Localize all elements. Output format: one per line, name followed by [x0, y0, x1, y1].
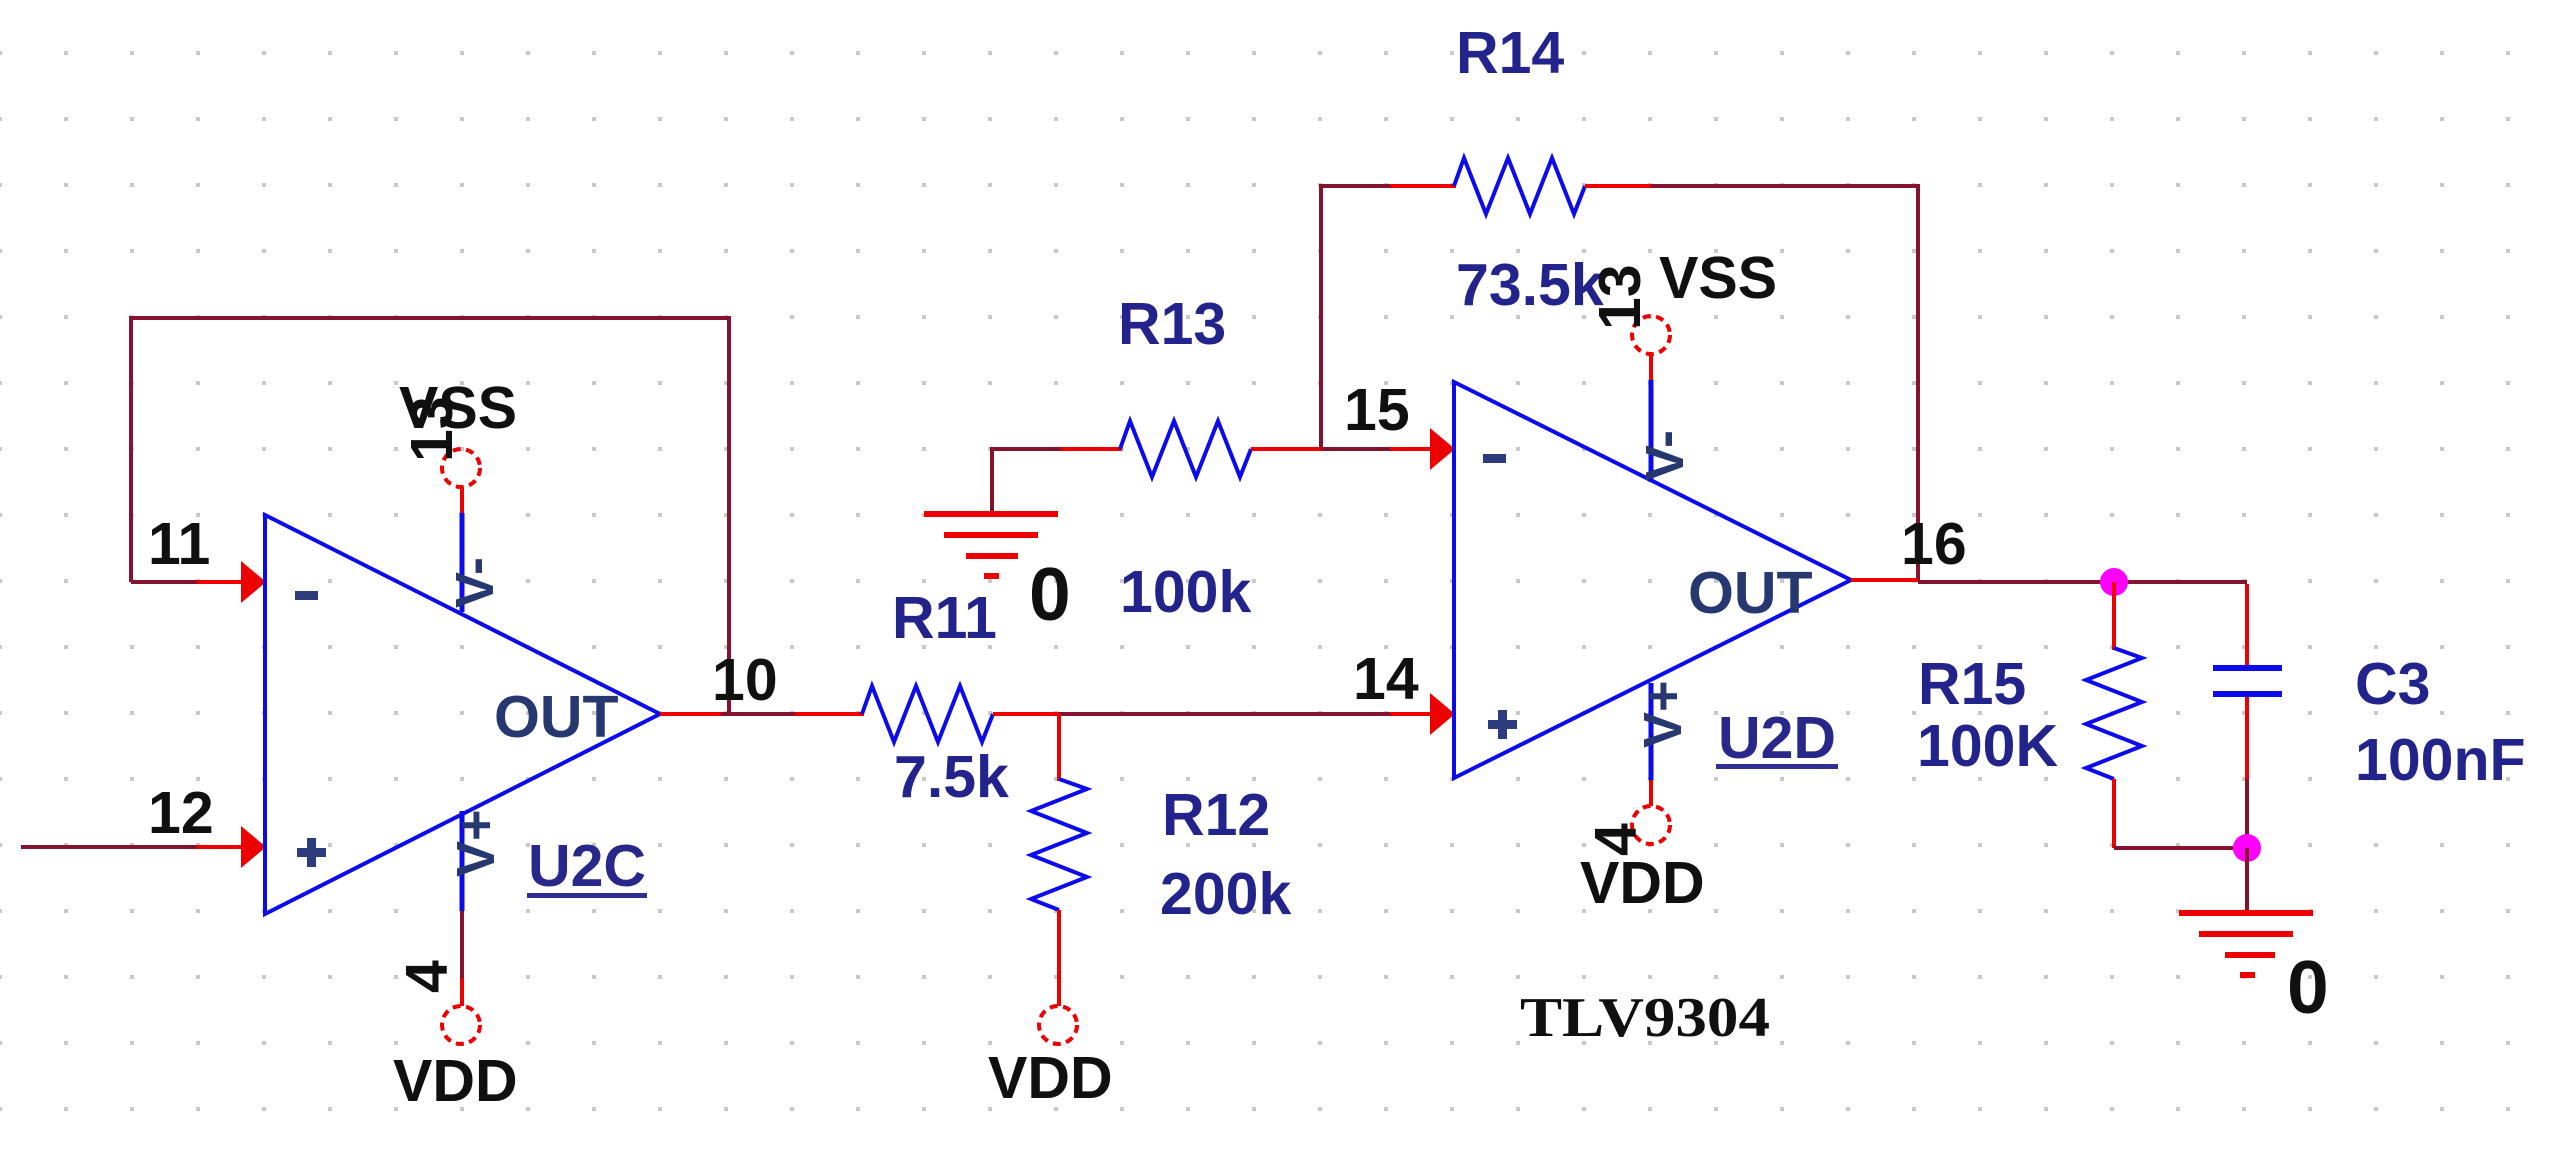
wire R11 to U2D pin 14 [1059, 712, 1390, 716]
svg-text:R12: R12 [1162, 782, 1270, 848]
wire feedback U2C output to inverting input [131, 318, 729, 712]
wire R15 bottom to ground node [2114, 846, 2247, 850]
svg-text:V-: V- [445, 557, 505, 608]
svg-text:V+: V+ [1633, 680, 1693, 748]
resistor R15 [2086, 582, 2142, 848]
op-amp U2C [265, 515, 660, 914]
svg-text:10: 10 [712, 647, 778, 713]
svg-text:VSS: VSS [1659, 245, 1777, 311]
wire U2D output to R15 and C3 [1918, 580, 2247, 584]
capacitor C3 [2213, 584, 2282, 848]
svg-text:V-: V- [1635, 430, 1695, 481]
svg-text:4: 4 [394, 960, 460, 993]
svg-text:73.5k: 73.5k [1456, 252, 1604, 318]
U2C VSS power symbol circle [442, 449, 480, 487]
svg-text:13: 13 [1587, 264, 1653, 330]
U2D VSS pin stub [1649, 354, 1653, 380]
svg-text:16: 16 [1901, 511, 1967, 577]
wire R14 feedback loop [1321, 186, 1390, 449]
U2C VDD power symbol circle [442, 1006, 480, 1044]
U2C reference label [527, 833, 647, 899]
svg-text:7.5k: 7.5k [894, 744, 1009, 810]
arrowhead pin 14 [1430, 693, 1455, 735]
wire pin 11 input [131, 580, 197, 584]
svg-text:13: 13 [399, 396, 465, 462]
resistor R12 [1031, 714, 1087, 1006]
U2D V+ power pin [1649, 683, 1654, 780]
resistor R14 [1390, 158, 1651, 214]
wire ground to R13 [992, 449, 1061, 514]
svg-text:TLV9304: TLV9304 [1520, 987, 1770, 1049]
svg-text:R15: R15 [1918, 651, 2026, 717]
pin stub 12 [197, 845, 248, 849]
resistor R11 [795, 686, 1059, 742]
R12 VDD power symbol circle [1039, 1006, 1077, 1044]
svg-text:U2C: U2C [528, 833, 646, 899]
svg-text:15: 15 [1344, 377, 1410, 443]
ground 0 at output [2179, 913, 2313, 975]
svg-text:0: 0 [1029, 552, 1071, 636]
svg-text:R14: R14 [1456, 20, 1564, 86]
arrowhead pin 15 [1430, 428, 1455, 470]
U2C V- power pin [460, 513, 465, 612]
arrowhead pin 12 [241, 826, 266, 868]
wire R14 to U2D output [1651, 186, 1918, 580]
op-amp U2D [1454, 382, 1851, 778]
svg-text:12: 12 [148, 780, 214, 846]
pin stub 15 [1390, 447, 1437, 451]
U2D V- power pin [1649, 380, 1654, 482]
svg-text:VDD: VDD [988, 1045, 1113, 1111]
svg-text:OUT: OUT [494, 684, 619, 750]
svg-text:100K: 100K [1917, 713, 2058, 779]
pin stub 14 [1390, 712, 1437, 716]
svg-text:OUT: OUT [1688, 560, 1813, 626]
svg-text:VDD: VDD [393, 1048, 518, 1114]
wire pin 12 input [21, 845, 197, 849]
U2D VDD pin stub [1649, 780, 1653, 806]
svg-text:100k: 100k [1120, 559, 1251, 625]
arrowhead pin 11 [241, 561, 266, 603]
svg-text:R13: R13 [1118, 291, 1226, 357]
wire U2C V+ to VDD [460, 911, 464, 978]
junction dot output node [2100, 568, 2128, 596]
svg-text:C3: C3 [2355, 651, 2430, 717]
U2C output pin stub [660, 712, 721, 716]
wire to ground [2245, 848, 2249, 913]
svg-text:U2D: U2D [1718, 705, 1836, 771]
wire U2C output to R11 [721, 712, 797, 716]
svg-text:VDD: VDD [1580, 850, 1705, 916]
svg-text:0: 0 [2287, 945, 2329, 1029]
ground 0 under R13 [924, 514, 1058, 576]
pin stub 11 [197, 580, 248, 584]
U2D reference label [1716, 705, 1838, 771]
U2D VDD power symbol circle [1632, 806, 1670, 844]
svg-text:R11: R11 [892, 585, 997, 651]
resistor R13 [1061, 421, 1322, 477]
U2D VSS power symbol circle [1632, 316, 1670, 354]
junction dot ground node [2233, 834, 2261, 862]
svg-text:11: 11 [148, 511, 210, 577]
svg-text:100nF: 100nF [2355, 727, 2526, 793]
U2D output pin stub [1851, 578, 1918, 582]
U2C VDD pin stub [460, 978, 464, 1006]
wire R13 to U2D pin 15 [1322, 447, 1390, 451]
svg-text:14: 14 [1353, 646, 1419, 712]
svg-text:V+: V+ [446, 809, 506, 877]
U2C V+ power pin [460, 811, 465, 911]
svg-text:200k: 200k [1160, 861, 1291, 927]
U2C VSS pin stub [460, 487, 464, 513]
